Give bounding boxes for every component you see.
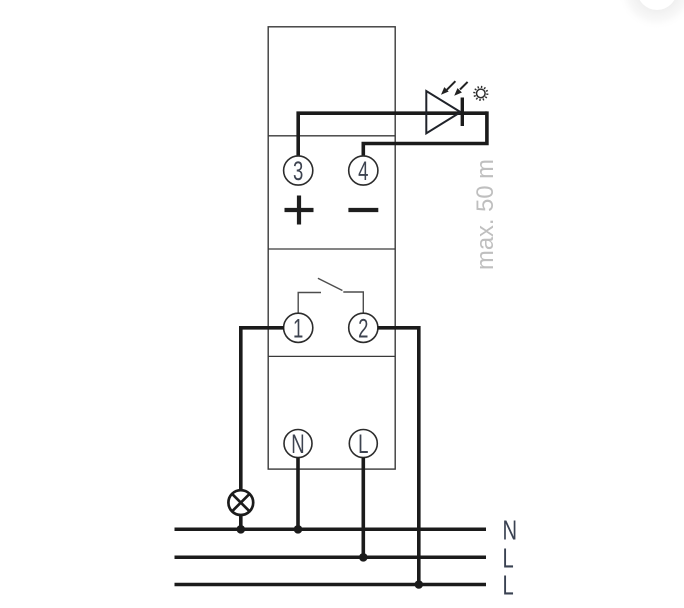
terminal 3 (284, 156, 313, 186)
svg-text:N: N (291, 429, 304, 459)
wire terminalN down (296, 458, 300, 530)
section divider 2 (268, 248, 395, 250)
section divider 3 (268, 355, 395, 357)
switch S1 (298, 278, 363, 313)
lamp E1 (228, 490, 253, 515)
section divider 1 (268, 135, 395, 137)
mains line L3 (175, 583, 487, 587)
terminal L (349, 429, 377, 459)
junction L (359, 553, 368, 562)
photodiode D1 triangle (426, 91, 460, 133)
junction wire2-L (415, 580, 424, 589)
wire lamp to N line (239, 516, 243, 529)
wire terminal2 to L line (378, 328, 419, 585)
mains line N (175, 528, 487, 532)
wire terminal3 to LED anode (298, 113, 487, 156)
light arrow 1 (441, 81, 455, 95)
terminal N (284, 429, 312, 459)
minus polarity label (348, 208, 378, 212)
terminal 1 (284, 313, 313, 343)
net label L3 (503, 571, 514, 602)
svg-text:3: 3 (293, 156, 303, 186)
wire terminal1 to lamp (241, 328, 284, 490)
svg-text:N: N (503, 515, 518, 546)
svg-text:L: L (358, 429, 368, 459)
light arrow 2 (454, 82, 467, 96)
wire terminalL down (361, 458, 365, 558)
device outline box (268, 27, 395, 469)
svg-text:max. 50 m: max. 50 m (472, 159, 499, 270)
terminal 2 (349, 313, 378, 343)
net label N (503, 515, 518, 546)
svg-text:1: 1 (293, 313, 303, 343)
svg-text:4: 4 (358, 156, 369, 186)
junction N (294, 525, 303, 534)
wire LED cathode return to terminal4 (363, 111, 487, 156)
net label L2 (503, 543, 514, 574)
svg-text:2: 2 (358, 313, 368, 343)
plus polarity label (285, 196, 314, 225)
junction lamp-N (237, 525, 246, 534)
photodiode D1 cathode bar (461, 98, 464, 127)
svg-text:L: L (503, 571, 514, 602)
mains line L2 (175, 556, 487, 560)
label max. 50 m (472, 159, 499, 270)
terminal 4 (349, 156, 378, 186)
sun symbol (473, 86, 488, 101)
